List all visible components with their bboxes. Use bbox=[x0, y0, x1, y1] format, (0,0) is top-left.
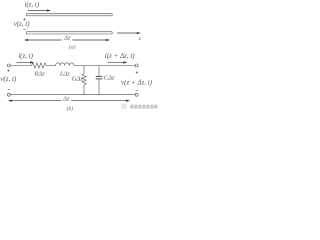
minus sign left (b) bbox=[8, 89, 10, 91]
current arrow figure a bbox=[28, 9, 51, 12]
current arrow left (b) bbox=[17, 61, 35, 64]
plus sign (a) bbox=[23, 18, 25, 20]
svg-text:v(z + Δz, t): v(z + Δz, t) bbox=[121, 78, 153, 86]
current arrow right (b) bbox=[107, 61, 127, 64]
wire L to right terminal bbox=[74, 65, 135, 67]
bottom wire (b) bbox=[10, 94, 135, 96]
svg-text:(b): (b) bbox=[67, 105, 74, 112]
svg-text:i(z, t): i(z, t) bbox=[18, 52, 33, 60]
watermark icon bbox=[122, 104, 127, 109]
resistor R delta-z bbox=[31, 63, 46, 68]
svg-text:i(z + Δz, t): i(z + Δz, t) bbox=[105, 52, 136, 60]
svg-text:LΔz: LΔz bbox=[59, 70, 70, 77]
svg-text:(a): (a) bbox=[69, 44, 76, 51]
wire R to L bbox=[46, 65, 55, 67]
svg-text:GΔz: GΔz bbox=[72, 76, 84, 83]
svg-text:Δz: Δz bbox=[63, 35, 71, 42]
plus sign left (b) bbox=[7, 69, 9, 71]
conductance branch wire top bbox=[83, 66, 85, 74]
svg-text:v(z, t): v(z, t) bbox=[14, 20, 31, 28]
terminal bottom-left bbox=[7, 93, 10, 96]
capacitor branch wire top bbox=[98, 66, 100, 77]
terminal top-right bbox=[135, 64, 138, 67]
plus sign right (b) bbox=[136, 71, 138, 73]
watermark text bbox=[130, 105, 157, 109]
minus sign (a) bbox=[23, 29, 25, 31]
top conductor bar bbox=[26, 13, 112, 15]
z axis arrow bbox=[117, 32, 141, 35]
svg-text:Δz: Δz bbox=[62, 96, 70, 103]
conductance branch wire bottom bbox=[83, 85, 85, 94]
svg-text:CΔz: CΔz bbox=[104, 74, 115, 81]
capacitor branch wire bottom bbox=[98, 79, 100, 95]
svg-text:i(z, t): i(z, t) bbox=[24, 0, 39, 8]
minus sign right (b) bbox=[136, 90, 138, 92]
resistor G delta-z vertical bbox=[82, 74, 86, 86]
dimension line delta-z (b) bbox=[8, 99, 130, 102]
inductor L delta-z bbox=[56, 63, 74, 66]
terminal top-left bbox=[7, 64, 10, 67]
svg-text:RΔz: RΔz bbox=[33, 70, 45, 77]
capacitor C delta-z plates bbox=[96, 75, 103, 77]
terminal bottom-right bbox=[135, 93, 138, 96]
svg-text:v(z, t): v(z, t) bbox=[0, 75, 17, 83]
wire top left bbox=[10, 65, 31, 67]
dimension line delta-z (a) bbox=[24, 39, 110, 42]
bottom conductor bar bbox=[26, 32, 112, 34]
